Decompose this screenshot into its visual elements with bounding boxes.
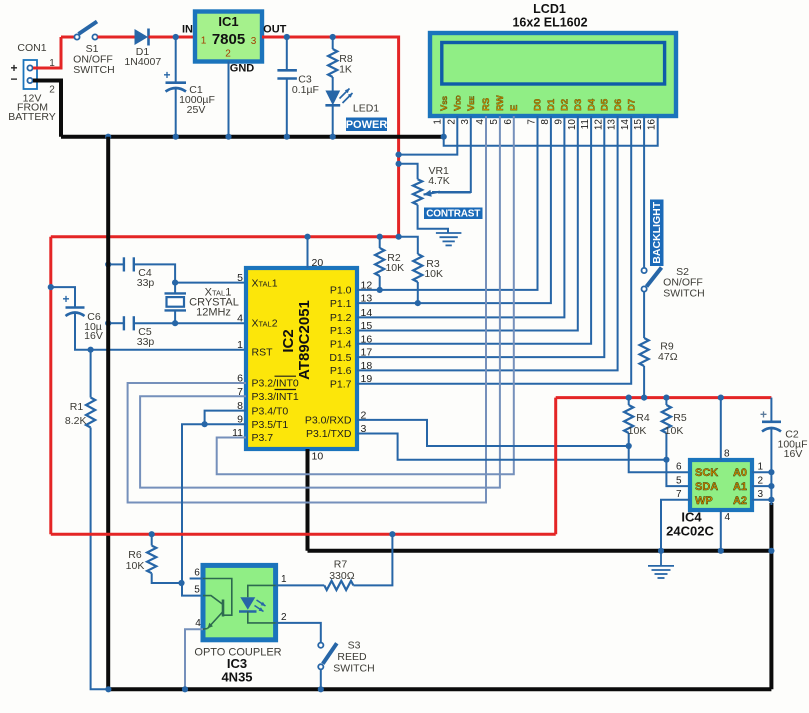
label D1 1N4007 bbox=[124, 46, 161, 68]
label R8 1K bbox=[339, 53, 353, 76]
junction dots right section bbox=[626, 395, 775, 554]
svg-text:RS: RS bbox=[481, 98, 492, 111]
diode D1 1N4007 bbox=[135, 29, 149, 46]
svg-text:4: 4 bbox=[475, 119, 486, 125]
label IC2 bbox=[280, 329, 297, 352]
net P1.2 to LCD D2 bbox=[357, 116, 564, 317]
label R1 8.2K bbox=[65, 401, 87, 427]
net P1.5 to LCD D5 bbox=[357, 116, 604, 357]
svg-text:20: 20 bbox=[312, 257, 324, 269]
label C4 33p bbox=[137, 267, 155, 289]
+5V bottom rail bbox=[51, 533, 556, 536]
svg-text:P1.3: P1.3 bbox=[330, 325, 352, 337]
wire IC3 pin2 to S3 bbox=[276, 623, 321, 643]
+5V left rail bbox=[49, 237, 52, 535]
label BACKLIGHT bbox=[650, 200, 664, 267]
svg-text:10K: 10K bbox=[424, 268, 443, 280]
svg-text:7: 7 bbox=[527, 119, 538, 125]
svg-text:LED1: LED1 bbox=[353, 103, 379, 115]
svg-text:BATTERY: BATTERY bbox=[8, 111, 55, 123]
svg-text:2: 2 bbox=[758, 476, 764, 487]
net P1.0 to LCD D0 bbox=[357, 116, 538, 290]
+5V right riser bbox=[554, 398, 557, 535]
svg-text:IC4: IC4 bbox=[681, 510, 702, 525]
svg-text:12: 12 bbox=[593, 119, 604, 131]
switch S2 bbox=[642, 268, 662, 292]
svg-text:1K: 1K bbox=[339, 64, 352, 76]
svg-text:SWITCH: SWITCH bbox=[663, 288, 704, 300]
junction dots xtal bbox=[88, 261, 179, 353]
IC3 pin numbers bbox=[194, 568, 287, 630]
svg-text:WP: WP bbox=[695, 495, 713, 507]
svg-text:330Ω: 330Ω bbox=[329, 570, 355, 582]
svg-text:10K: 10K bbox=[628, 425, 647, 437]
svg-text:SWITCH: SWITCH bbox=[333, 663, 374, 675]
svg-text:7805: 7805 bbox=[212, 31, 245, 48]
IC2 pin numbers bbox=[232, 257, 372, 463]
svg-text:RST: RST bbox=[252, 347, 274, 359]
label OPTO COUPLER IC3 4N35 bbox=[194, 647, 281, 685]
svg-text:A2: A2 bbox=[733, 495, 747, 507]
label R6 10K bbox=[126, 549, 145, 572]
label C3 0.1uF bbox=[292, 74, 319, 97]
wire S1 to D1 bbox=[98, 36, 135, 39]
wire IC2 pin10 ground bbox=[306, 449, 310, 551]
svg-text:1: 1 bbox=[281, 574, 287, 585]
IC4 pin numbers bbox=[676, 449, 764, 524]
wire LCD pin2 Vdd to +5V bbox=[399, 116, 458, 155]
svg-text:P1.2: P1.2 bbox=[330, 312, 352, 324]
svg-text:2: 2 bbox=[281, 612, 287, 623]
capacitor C1 1000uF bbox=[163, 37, 186, 137]
optocoupler IC3 4N35 bbox=[203, 565, 276, 639]
svg-text:6: 6 bbox=[503, 119, 514, 125]
wires IC4 A0 A1 A2 to ground bbox=[752, 472, 771, 500]
junction dots bottom bbox=[105, 531, 395, 692]
label R4 10K bbox=[628, 412, 650, 437]
svg-text:1: 1 bbox=[433, 119, 444, 125]
svg-text:OUT: OUT bbox=[263, 24, 287, 36]
svg-text:D0: D0 bbox=[533, 99, 544, 111]
resistor R1 8.2K bbox=[86, 350, 108, 690]
capacitor C3 0.1uF bbox=[277, 37, 297, 137]
eeprom IC4 24C02C bbox=[690, 460, 752, 510]
svg-text:D7: D7 bbox=[626, 99, 637, 111]
ground symbol IC4 bbox=[648, 551, 674, 578]
label GND bbox=[230, 63, 255, 75]
wire LCD pin3 Vee to VR1 wiper bbox=[432, 116, 471, 192]
svg-text:D4: D4 bbox=[586, 98, 597, 111]
svg-text:SWITCH: SWITCH bbox=[73, 64, 114, 76]
svg-text:P3.0/RXD: P3.0/RXD bbox=[305, 415, 352, 427]
ground rail right vertical bbox=[769, 503, 773, 689]
wire C4 net to black rail bbox=[108, 263, 124, 265]
svg-text:8: 8 bbox=[540, 119, 551, 125]
wire LCD pin1 Vss to ground bbox=[443, 116, 445, 137]
label POWER bbox=[346, 118, 388, 132]
wire VR1 bottom to ground bbox=[418, 205, 448, 233]
svg-text:16V: 16V bbox=[784, 448, 803, 460]
svg-text:1N4007: 1N4007 bbox=[124, 56, 161, 68]
svg-text:3: 3 bbox=[251, 36, 257, 47]
label C5 33p bbox=[137, 326, 155, 348]
svg-text:E: E bbox=[509, 105, 520, 111]
svg-text:P3.2/INT0: P3.2/INT0 bbox=[252, 378, 299, 390]
svg-text:+: + bbox=[62, 292, 69, 306]
label R2 10K bbox=[385, 252, 404, 274]
label S1 ON/OFF SWITCH bbox=[73, 43, 115, 76]
svg-text:BACKLIGHT: BACKLIGHT bbox=[651, 201, 663, 263]
svg-text:−: − bbox=[10, 72, 17, 86]
label LED1 bbox=[353, 103, 379, 115]
LED LED1 bbox=[325, 89, 352, 137]
label XTAL1 CRYSTAL 12MHz bbox=[189, 287, 239, 319]
svg-text:LCD1: LCD1 bbox=[533, 2, 566, 16]
svg-text:A0: A0 bbox=[733, 467, 747, 479]
wire IC1 GND to ground rail bbox=[228, 62, 230, 137]
label C6 10u 16V bbox=[84, 311, 103, 342]
svg-text:D6: D6 bbox=[613, 99, 624, 111]
net P1.3 to LCD D3 bbox=[357, 116, 578, 331]
svg-text:2: 2 bbox=[446, 119, 457, 125]
svg-text:XTAL2: XTAL2 bbox=[252, 318, 278, 330]
wire CON1 pin1 to +12V rail bbox=[33, 37, 61, 68]
svg-text:R5: R5 bbox=[673, 412, 687, 424]
ground symbol contrast bbox=[436, 233, 462, 245]
svg-text:XTAL1: XTAL1 bbox=[252, 278, 278, 290]
label OUT bbox=[263, 24, 287, 36]
svg-text:4N35: 4N35 bbox=[221, 670, 252, 685]
svg-text:P3.1/TXD: P3.1/TXD bbox=[306, 428, 352, 440]
svg-text:8.2K: 8.2K bbox=[65, 415, 87, 427]
svg-text:10K: 10K bbox=[126, 560, 145, 572]
label S3 REED SWITCH bbox=[333, 640, 374, 675]
svg-text:5: 5 bbox=[194, 585, 200, 596]
svg-text:11: 11 bbox=[580, 119, 591, 130]
svg-text:SCK: SCK bbox=[695, 467, 718, 479]
svg-text:6: 6 bbox=[194, 568, 200, 579]
net P3.0/RXD to SCK bbox=[357, 420, 629, 446]
svg-text:+: + bbox=[760, 408, 767, 422]
reed switch S3 bbox=[318, 643, 337, 670]
svg-text:3: 3 bbox=[460, 119, 471, 125]
svg-text:10K: 10K bbox=[665, 425, 684, 437]
svg-text:2: 2 bbox=[225, 49, 231, 60]
label R5 10K bbox=[665, 412, 687, 437]
capacitor C2 100uF 16V bbox=[760, 398, 781, 505]
potentiometer VR1 4.7K bbox=[399, 164, 471, 205]
svg-text:3: 3 bbox=[758, 489, 764, 500]
svg-text:25V: 25V bbox=[187, 104, 206, 116]
label C1 1000uF 25V bbox=[179, 84, 215, 116]
svg-text:4: 4 bbox=[237, 313, 243, 325]
wire LCD pin15 backlight A to S2 bbox=[643, 116, 645, 268]
svg-text:12MHz: 12MHz bbox=[196, 307, 231, 319]
label CONTRAST bbox=[424, 208, 483, 220]
svg-text:4.7K: 4.7K bbox=[428, 175, 450, 187]
svg-text:R7: R7 bbox=[334, 559, 348, 571]
svg-text:P3.3/INT1: P3.3/INT1 bbox=[252, 391, 299, 403]
label R3 10K bbox=[424, 258, 443, 280]
+5V mid rail bbox=[51, 235, 399, 238]
svg-text:D2: D2 bbox=[560, 99, 571, 111]
svg-text:7: 7 bbox=[676, 489, 682, 500]
svg-text:R1: R1 bbox=[70, 401, 84, 413]
svg-text:CONTRAST: CONTRAST bbox=[426, 208, 480, 219]
net P1.6 to LCD D6 bbox=[357, 116, 618, 370]
junction dot R2 to P1.0 bbox=[377, 287, 383, 293]
svg-text:CON1: CON1 bbox=[17, 42, 46, 54]
net P3.1/TXD to SDA bbox=[357, 434, 666, 460]
svg-text:IN: IN bbox=[182, 24, 193, 36]
svg-text:6: 6 bbox=[676, 462, 682, 473]
svg-text:GND: GND bbox=[230, 63, 255, 75]
svg-text:8: 8 bbox=[724, 449, 730, 460]
svg-text:P1.6: P1.6 bbox=[330, 365, 352, 377]
net P1.4 to LCD D4 bbox=[357, 116, 591, 344]
net P3.2 to LCD RS bbox=[128, 116, 486, 503]
LCD module LCD1 bbox=[430, 33, 676, 116]
svg-text:R4: R4 bbox=[636, 412, 650, 424]
label R7 330ohm bbox=[329, 559, 355, 583]
label LCD1 16x2 EL1602 bbox=[512, 2, 587, 30]
svg-text:47Ω: 47Ω bbox=[658, 351, 678, 363]
wire IC4 pin8 Vcc bbox=[720, 398, 722, 460]
svg-text:P3.4/T0: P3.4/T0 bbox=[252, 405, 289, 417]
svg-text:10: 10 bbox=[312, 451, 324, 463]
svg-text:13: 13 bbox=[607, 119, 618, 131]
svg-text:IC1: IC1 bbox=[218, 14, 238, 29]
wire IC3 pin4 emitter to ground bbox=[185, 629, 203, 689]
wire CON1 pin2 to ground rail bbox=[33, 81, 61, 137]
resistor R4 10K pullup SCK bbox=[624, 398, 633, 446]
svg-text:10: 10 bbox=[567, 119, 578, 131]
svg-text:5: 5 bbox=[237, 272, 243, 284]
label IN bbox=[182, 24, 193, 36]
LCD pin numbers 1-16 bbox=[433, 119, 658, 131]
connector CON1 bbox=[10, 58, 55, 96]
IC3 transistor bbox=[203, 596, 223, 630]
svg-text:SDA: SDA bbox=[695, 481, 718, 493]
label R9 47ohm bbox=[658, 341, 678, 363]
LCD pin name labels Vss Vdd Vee RS RW E D0-D7 bbox=[439, 95, 638, 111]
svg-text:REED: REED bbox=[337, 651, 367, 663]
resistor R9 47ohm bbox=[640, 338, 649, 398]
svg-text:RW: RW bbox=[495, 95, 506, 111]
wire +12V rail to S1 bbox=[61, 36, 75, 39]
net P3.7 to LCD E bbox=[217, 116, 514, 474]
net P3.5 to optocoupler bbox=[182, 424, 246, 595]
svg-text:15: 15 bbox=[633, 119, 644, 131]
label AT89C2051 bbox=[296, 300, 313, 380]
svg-text:33p: 33p bbox=[137, 277, 155, 289]
svg-text:1: 1 bbox=[201, 36, 207, 47]
svg-text:4: 4 bbox=[195, 618, 201, 629]
switch S1 bbox=[74, 22, 97, 40]
microcontroller IC2 AT89C2051 bbox=[246, 268, 357, 449]
label 12V FROM BATTERY bbox=[8, 93, 55, 123]
svg-text:24C02C: 24C02C bbox=[666, 524, 714, 539]
svg-text:1: 1 bbox=[237, 339, 243, 351]
junction dots +5V rails bbox=[48, 152, 402, 291]
svg-text:P1.1: P1.1 bbox=[330, 298, 352, 310]
capacitor C5 33p bbox=[108, 316, 175, 330]
svg-text:A1: A1 bbox=[733, 481, 747, 493]
svg-text:IC2: IC2 bbox=[280, 329, 297, 352]
IC3 pin6 base stub bbox=[190, 579, 232, 616]
wire LCD pin16 backlight K to ground net bbox=[444, 116, 658, 146]
wire SDA jog to IC4 pin5 bbox=[666, 460, 690, 486]
ground rail middle bbox=[308, 549, 772, 553]
svg-text:D5: D5 bbox=[600, 98, 611, 111]
svg-text:+: + bbox=[163, 68, 170, 82]
regulator IC1 7805 bbox=[195, 12, 262, 62]
svg-text:D1: D1 bbox=[546, 98, 557, 111]
svg-text:POWER: POWER bbox=[346, 119, 388, 131]
net P1.1 to LCD D1 bbox=[357, 116, 551, 303]
wire SCK jog to IC4 pin6 bbox=[629, 446, 690, 472]
IC2 left pin labels bbox=[252, 278, 299, 445]
svg-text:P1.7: P1.7 bbox=[330, 378, 352, 390]
wire D1 to IC1 IN bbox=[149, 36, 196, 39]
resistor R8 1K bbox=[328, 37, 337, 91]
label CON1 bbox=[17, 42, 46, 54]
svg-text:AT89C2051: AT89C2051 bbox=[296, 300, 313, 380]
svg-text:P1.0: P1.0 bbox=[330, 285, 352, 297]
svg-text:14: 14 bbox=[620, 119, 631, 131]
wire IC4 pin7 WP to ground bbox=[661, 500, 690, 551]
capacitor C4 33p bbox=[124, 257, 175, 282]
svg-text:16V: 16V bbox=[84, 330, 103, 342]
resistor R7 330ohm bbox=[276, 534, 393, 590]
svg-text:D1.5: D1.5 bbox=[329, 352, 351, 364]
svg-text:9: 9 bbox=[553, 119, 564, 125]
svg-text:P3.7: P3.7 bbox=[252, 432, 274, 444]
wire IC1 OUT +5V rail bbox=[262, 37, 399, 237]
IC3 internal LED bbox=[239, 585, 276, 623]
label S2 ON/OFF SWITCH bbox=[663, 266, 705, 300]
label IC4 24C02C bbox=[666, 510, 714, 539]
svg-text:2: 2 bbox=[49, 85, 55, 96]
net P3.3 to LCD RW bbox=[140, 116, 500, 488]
net P3.4 tie to P3.5 bbox=[202, 411, 247, 428]
ground rail top bbox=[61, 135, 444, 139]
junction dot R3 to P1.1 bbox=[415, 300, 421, 306]
svg-text:16x2 EL1602: 16x2 EL1602 bbox=[512, 16, 587, 30]
junction dots top rails bbox=[105, 34, 447, 140]
wire S2 to R9 bbox=[643, 292, 645, 339]
svg-text:33p: 33p bbox=[137, 336, 155, 348]
wire S3 to ground bbox=[320, 669, 322, 689]
svg-text:S3: S3 bbox=[348, 640, 361, 652]
svg-text:10K: 10K bbox=[385, 262, 404, 274]
svg-text:16: 16 bbox=[647, 119, 658, 131]
svg-text:P3.5/T1: P3.5/T1 bbox=[252, 419, 289, 431]
svg-text:0.1µF: 0.1µF bbox=[292, 84, 319, 96]
IC2 right pin labels bbox=[305, 285, 352, 441]
ground vertical left bbox=[106, 137, 110, 690]
label VR1 4.7K bbox=[428, 165, 450, 187]
svg-text:5: 5 bbox=[676, 476, 682, 487]
resistor R6 10K bbox=[147, 534, 181, 583]
wire XTAL2 row bbox=[175, 322, 246, 324]
svg-text:1: 1 bbox=[758, 462, 764, 473]
capacitor C6 10u 16V bbox=[51, 287, 246, 350]
+5V top right rail bbox=[556, 396, 772, 399]
crystal XTAL1 12MHz bbox=[165, 283, 187, 324]
resistor R5 10K pullup SDA bbox=[662, 398, 671, 460]
net P1.7 to LCD D7 bbox=[357, 116, 631, 384]
svg-text:D3: D3 bbox=[573, 99, 584, 111]
svg-text:5: 5 bbox=[489, 119, 500, 125]
resistor R2 10K pullup P1.0 bbox=[375, 237, 384, 290]
resistor R3 10K pullup P1.1 bbox=[399, 237, 423, 303]
ground rail bottom bbox=[108, 687, 771, 691]
label C2 100uF 16V bbox=[778, 429, 808, 461]
svg-text:P1.4: P1.4 bbox=[330, 339, 352, 351]
svg-text:4: 4 bbox=[725, 512, 731, 523]
wire XTAL1 row bbox=[175, 282, 246, 284]
wire IC4 pin4 ground bbox=[720, 510, 722, 551]
wire IC2 pin20 Vcc bbox=[307, 237, 309, 268]
